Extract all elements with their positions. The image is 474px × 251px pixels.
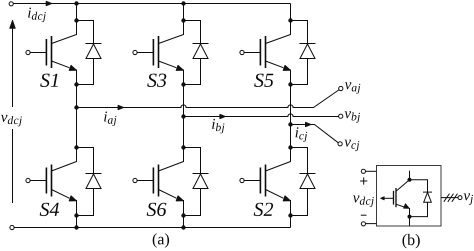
terminal v_aj circle [339, 86, 343, 90]
IGBT S1 [26, 21, 77, 85]
IGBT S4 [26, 148, 77, 216]
phase b wire with hop [184, 114, 339, 117]
phase c wire [291, 125, 339, 143]
phase c arrow [306, 122, 311, 126]
IGBT S2 [240, 148, 291, 216]
label S4 [40, 203, 59, 216]
wire + terminal [366, 170, 377, 172]
node S1 emitter [74, 82, 78, 86]
terminal + circle [361, 169, 365, 173]
leg 1 rail mid [76, 85, 78, 148]
label i_cj [296, 127, 308, 142]
IGBT S6 [133, 148, 184, 216]
label S1 [40, 74, 58, 87]
minus sign [361, 214, 367, 216]
diode D1 [77, 21, 102, 85]
label S6 [147, 203, 167, 216]
diode D5 [291, 21, 316, 85]
phase a arrow [118, 105, 123, 109]
node S3 emitter [181, 82, 185, 86]
label S5 [254, 74, 273, 87]
phase a wire with hops [77, 90, 339, 108]
leg 2 rail top [183, 4, 185, 21]
leg 1 rail top [76, 4, 78, 21]
node S3 collector [181, 18, 185, 22]
IGBT S3 [133, 21, 184, 85]
bottom DC bus terminal circle [10, 225, 14, 229]
diode D6 [184, 148, 209, 216]
node phase c tap [288, 122, 292, 126]
IGBT in module [381, 171, 410, 226]
node S4 emitter [74, 213, 78, 217]
node S6 collector [181, 145, 185, 149]
multiline slashes [444, 194, 458, 202]
node module emitter [408, 215, 412, 219]
node S2 emitter [288, 213, 292, 217]
leg 3 rail mid [290, 85, 292, 148]
diode D3 [184, 21, 209, 85]
label v_aj [345, 82, 360, 94]
diode D2 [291, 148, 316, 216]
node S1 collector [74, 18, 78, 22]
module box [377, 166, 442, 227]
output wire v_j [441, 197, 458, 199]
label (a) [153, 233, 169, 248]
phase b arrow [220, 114, 225, 118]
leg 1 rail bottom [76, 216, 78, 228]
label v_dcj (b) [353, 196, 374, 208]
node module collector [408, 178, 412, 182]
node S4 collector [74, 145, 78, 149]
wire - terminal [366, 223, 377, 225]
node dot top bus leg1 [74, 1, 78, 5]
v_dcj measurement arrow (left) [10, 20, 16, 203]
node S5 emitter [288, 82, 292, 86]
node phase b tap [181, 114, 185, 118]
node dot bottom bus leg2 [181, 225, 185, 229]
label i_dcj [28, 8, 46, 23]
plus sign [360, 177, 367, 184]
leg 2 rail mid [183, 85, 185, 148]
label v_j [464, 193, 473, 205]
top bus corner down to leg3 [290, 4, 292, 21]
node S5 collector [288, 18, 292, 22]
node S2 collector [288, 145, 292, 149]
label v_bj [345, 111, 360, 123]
node dot top bus leg2 [181, 1, 185, 5]
diode D4 [77, 148, 102, 216]
label S2 [254, 203, 273, 216]
label v_cj [345, 140, 360, 152]
label i_aj [104, 112, 116, 127]
terminal - circle [361, 222, 365, 226]
bottom DC bus wire [14, 227, 290, 229]
top DC bus terminal circle [9, 2, 13, 6]
node phase a tap [74, 105, 78, 109]
label v_dcj left [1, 115, 22, 127]
IGBT S5 [240, 21, 291, 85]
leg 3 rail bottom [290, 216, 292, 228]
diode in module [410, 180, 433, 217]
top bus current arrow [46, 1, 51, 5]
terminal v_cj circle [338, 142, 342, 146]
node dot bottom bus leg1 [74, 225, 78, 229]
node S6 emitter [181, 213, 185, 217]
top DC bus wire [13, 3, 290, 5]
terminal v_bj circle [339, 114, 343, 118]
label S3 [147, 74, 166, 87]
leg 2 rail bottom [183, 216, 185, 228]
terminal v_j circle [458, 196, 462, 200]
label i_bj [212, 119, 224, 133]
label (b) [403, 234, 420, 249]
